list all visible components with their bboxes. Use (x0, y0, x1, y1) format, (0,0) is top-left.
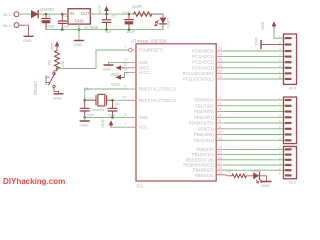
node junction C4 top (128, 13, 131, 16)
svg-text:22: 22 (124, 58, 128, 62)
svg-text:13: 13 (218, 136, 222, 140)
supply VCC arrow at IC pin 7 (100, 119, 128, 128)
capacitor C4 (10uF electrolytic) (122, 9, 136, 34)
right pin stubs PC0-PC5 (216, 51, 225, 79)
svg-text:25: 25 (218, 58, 222, 62)
wire crystal to IC pin 9 XTAL1 (85, 89, 128, 100)
wire PD2 to BL1 pad 3 (225, 111, 285, 113)
svg-text:PD3(INT1): PD3(INT1) (194, 115, 214, 120)
svg-text:+ C3: + C3 (42, 13, 50, 18)
pin 7 VCC (125, 123, 148, 130)
wire PD4 to BL1 pad 5 (225, 122, 285, 124)
svg-text:PD0(RXD): PD0(RXD) (194, 98, 214, 103)
wire PD1 to BL1 pad 2 (225, 105, 285, 107)
svg-text:220R: 220R (132, 4, 142, 9)
svg-text:PC6(RESET): PC6(RESET) (139, 48, 164, 53)
svg-text:2: 2 (219, 96, 221, 100)
svg-text:R2: R2 (47, 59, 52, 65)
wire PD7 to BL1 pad 8 (225, 139, 285, 141)
svg-text:VCC: VCC (139, 125, 148, 130)
voltage regulator IC7805 (68, 9, 99, 30)
svg-text:23: 23 (218, 47, 222, 51)
POWER (3, 4, 172, 47)
svg-text:10uF: 10uF (126, 29, 135, 34)
resistor R1 220R (132, 4, 152, 16)
svg-text:16MHz: 16MHz (92, 107, 105, 112)
pin 20 AVCC (124, 68, 150, 75)
svg-text:IN: IN (70, 11, 74, 16)
node junction C5 bottom (83, 116, 86, 119)
pin 9 PB6(XTAL1/TOSC1) (125, 84, 177, 91)
svg-text:LED2: LED2 (252, 168, 263, 173)
diode D1 1N4001 (31, 7, 55, 18)
svg-text:21: 21 (124, 63, 128, 67)
svg-text:14: 14 (218, 145, 222, 149)
svg-text:GND: GND (53, 95, 62, 100)
svg-text:IC7805: IC7805 (85, 25, 99, 30)
ground below regulator (74, 41, 84, 48)
svg-text:PD4(XCK/T0): PD4(XCK/T0) (189, 121, 215, 126)
capacitor C2 (1uF) (102, 13, 116, 34)
connector BL1 (284, 97, 297, 149)
wire X6-2 to ground (19, 25, 28, 36)
svg-text:PC1(ADC1): PC1(ADC1) (192, 54, 214, 59)
svg-text:OUT: OUT (81, 11, 90, 16)
svg-text:GND: GND (23, 38, 32, 43)
supply VCC arrow at AREF pin 21 (111, 65, 129, 76)
svg-text:10K: 10K (60, 60, 65, 67)
svg-text:C2: C2 (112, 13, 117, 18)
wire PC2 to BL3 pad 5 (225, 61, 285, 63)
svg-text:12: 12 (218, 131, 222, 135)
svg-text:LED1: LED1 (166, 19, 171, 30)
right side pin names PC0-PC5 (183, 49, 215, 82)
svg-text:C5: C5 (89, 97, 94, 101)
svg-text:PD5(T1): PD5(T1) (198, 126, 214, 131)
svg-text:1N4001: 1N4001 (40, 7, 55, 12)
node junction C2 top (105, 13, 108, 16)
ground at IC pin 22 (103, 65, 114, 71)
svg-text:VCC: VCC (111, 82, 120, 87)
op IC1 ATmega 168/328 body (131, 39, 216, 189)
svg-text:VCC: VCC (260, 21, 265, 30)
svg-text:VCC: VCC (50, 42, 55, 51)
wire resistor to LED1 (152, 14, 163, 17)
node junction C3 top (45, 13, 48, 16)
svg-text:PD6(AIN0): PD6(AIN0) (194, 132, 214, 137)
capacitor C6 22P (108, 100, 120, 117)
svg-text:7: 7 (125, 123, 127, 127)
capacitor C5 22P (80, 100, 94, 117)
ground to BL3 pad 2 (254, 38, 286, 49)
right pin stubs PD0-PD7 (216, 100, 225, 140)
svg-text:VCC: VCC (100, 119, 105, 128)
XTAL (80, 63, 129, 128)
wire PC1 to BL3 pad 4 (225, 56, 285, 58)
supply VCC arrow reset pullup (50, 41, 60, 50)
svg-text:24: 24 (218, 53, 222, 57)
svg-text:6: 6 (219, 119, 221, 123)
right side pin names PB0-PB5 (183, 147, 214, 178)
svg-text:C6: C6 (115, 101, 121, 106)
svg-text:PD2(INT0): PD2(INT0) (194, 109, 214, 114)
svg-text:5: 5 (219, 113, 221, 117)
wire PD3 to BL1 pad 4 (225, 116, 285, 118)
right pin numbers 2-13 (218, 96, 222, 140)
svg-text:PC2(ADC2): PC2(ADC2) (192, 60, 214, 65)
ground below reset switch (53, 94, 63, 101)
connector X6-2 (3, 23, 19, 28)
ground below crystal caps (80, 117, 90, 127)
wire PC3 to BL3 pad 6 (225, 67, 285, 69)
svg-text:PC4(ADC4/SDA): PC4(ADC4/SDA) (183, 71, 215, 76)
svg-text:15: 15 (218, 151, 222, 155)
wire ground to IC pin 22 (109, 63, 129, 65)
svg-text:GND: GND (261, 183, 270, 188)
right pin stubs PB0-PB5 (216, 149, 232, 175)
right side pin names PD0-PD7 (189, 98, 215, 143)
resistor R3 (226, 168, 246, 178)
pin stub regulator OUT (90, 13, 94, 15)
svg-text:RESET: RESET (33, 80, 38, 95)
svg-text:BL2: BL2 (289, 180, 297, 185)
svg-text:11: 11 (218, 125, 222, 129)
node junction crystal right (111, 99, 114, 102)
svg-text:GND: GND (103, 66, 112, 71)
capacitor C3 (10uF electrolytic) (42, 13, 55, 30)
node junction C6 bottom (111, 116, 114, 119)
wire PC4 to BL3 pad 7 (225, 72, 285, 74)
wire regulator GND pin down to rail (78, 24, 80, 40)
node junction reset net (56, 67, 59, 70)
svg-text:3: 3 (219, 102, 221, 106)
supply VCC arrow at AVCC pin 20 (111, 73, 128, 88)
BL3 pad pin numbers (279, 35, 281, 80)
RESET (33, 41, 128, 100)
svg-text:Q1: Q1 (84, 86, 90, 91)
wire PC0 to BL3 pad 3 (225, 50, 285, 52)
switch S1 reset button (33, 69, 59, 96)
svg-text:10: 10 (123, 96, 127, 100)
wire diode to regulator IN (39, 13, 68, 15)
svg-text:BL3: BL3 (289, 86, 297, 91)
svg-text:19: 19 (218, 171, 222, 175)
svg-text:22P: 22P (87, 113, 94, 118)
right pin numbers 14-19 (218, 145, 222, 175)
svg-text:GND: GND (74, 42, 83, 47)
wire R3 to LED2 (246, 175, 253, 177)
svg-text:AVCC: AVCC (139, 70, 150, 75)
supply VCC arrow to BL3 pad 1 (260, 21, 285, 38)
node junction crystal left (83, 99, 86, 102)
svg-text:1: 1 (125, 45, 127, 49)
wire PD0 to BL1 pad 1 (225, 99, 285, 101)
svg-text:9: 9 (125, 84, 127, 88)
wire PB2 to BL2 pad 3 (225, 159, 285, 161)
svg-text:PD7(AIN1): PD7(AIN1) (194, 138, 214, 143)
svg-text:R3: R3 (226, 168, 232, 173)
pin 22 GND (124, 58, 148, 65)
svg-text:IC1: IC1 (137, 184, 144, 189)
svg-text:VCC: VCC (97, 5, 102, 14)
svg-text:PC3(ADC3): PC3(ADC3) (192, 65, 214, 70)
ground rail wire (46, 29, 163, 31)
svg-text:PC0(ADC0): PC0(ADC0) (192, 49, 214, 54)
BL2 pad pin numbers (279, 146, 281, 176)
MCU (123, 39, 233, 189)
pin 8 GND (125, 113, 148, 120)
svg-text:PC5(ADC5/SCL): PC5(ADC5/SCL) (183, 77, 214, 82)
wire PB1 to BL2 pad 2 (225, 154, 285, 156)
svg-text:VCC: VCC (111, 72, 120, 77)
ground below LED2 (261, 182, 271, 189)
svg-text:26: 26 (218, 64, 222, 68)
svg-text:20: 20 (124, 68, 128, 72)
node junction C1 top (61, 13, 64, 16)
ground below X6-2 (23, 36, 33, 43)
svg-text:16: 16 (218, 156, 222, 160)
resistor R2 10K (47, 51, 66, 69)
svg-text:27: 27 (218, 69, 222, 73)
wire PB3 to BL2 pad 4 (225, 164, 285, 166)
svg-text:8: 8 (125, 113, 127, 117)
wire PD5 to BL1 pad 6 (225, 128, 285, 130)
pin 1 PC6(RESET) (125, 45, 164, 52)
svg-text:ATmega 168/328: ATmega 168/328 (131, 39, 167, 44)
wire regulator OUT to LED branch (90, 13, 163, 15)
right pin numbers 23-28 (218, 47, 222, 79)
BL1 pad pin numbers (279, 97, 281, 141)
node junction C1 bottom (61, 28, 64, 31)
svg-text:PB5(SCK): PB5(SCK) (195, 173, 215, 178)
svg-text:GND: GND (80, 123, 89, 128)
wire PB0 to BL2 pad 1 (225, 148, 285, 150)
wire crystal to IC pin 10 XTAL2 (113, 99, 129, 101)
wire LED2 to ground (260, 176, 267, 181)
node junction C4 bottom (128, 28, 131, 31)
svg-text:X6-1: X6-1 (3, 12, 12, 17)
connector BL2 (284, 146, 297, 184)
svg-text:PB6(XTAL1/TOSC1): PB6(XTAL1/TOSC1) (139, 87, 177, 92)
svg-text:GND: GND (254, 38, 259, 47)
svg-text:4: 4 (219, 108, 221, 112)
connector X6-1 (3, 12, 19, 17)
connector BL3 (284, 34, 297, 91)
svg-text:10uF: 10uF (46, 23, 55, 28)
svg-text:GND: GND (139, 115, 148, 120)
svg-text:X6-2: X6-2 (3, 23, 12, 28)
wire PC5 to BL3 pad 8 (225, 78, 285, 80)
LED LED1 (155, 18, 171, 30)
svg-text:PB7(XTAL2/TOSC2): PB7(XTAL2/TOSC2) (139, 98, 177, 103)
node junction C2 bottom (105, 28, 108, 31)
capacitor C1 (1uF) (58, 13, 70, 30)
wire reset net to pin 1 (57, 50, 128, 69)
wire PB4 to BL2 pad 5 (225, 169, 285, 171)
svg-text:18: 18 (218, 166, 222, 170)
wire PD6 to BL1 pad 7 (225, 134, 285, 136)
svg-text:+C4: +C4 (122, 9, 130, 14)
svg-text:PD1(TXD): PD1(TXD) (195, 103, 215, 108)
svg-text:17: 17 (218, 161, 222, 165)
svg-text:28: 28 (218, 75, 222, 79)
wire X6-1 to diode (19, 13, 31, 15)
pin stub regulator IN (64, 13, 69, 15)
node junction regulator gnd on rail (78, 28, 81, 31)
svg-text:DIYhacking.com: DIYhacking.com (3, 177, 65, 186)
LED LED2 (252, 168, 263, 183)
svg-text:GND: GND (75, 18, 84, 23)
crystal Q1 16MHz (84, 86, 113, 112)
CONNECTORS (225, 21, 297, 188)
pin 10 PB7(XTAL2/TOSC2) (123, 96, 177, 103)
svg-text:6: 6 (279, 172, 281, 176)
wire caps ground to IC pin 8 (85, 116, 128, 118)
pin 21 AREF (124, 63, 150, 70)
supply VCC arrow at regulator output (97, 5, 109, 14)
